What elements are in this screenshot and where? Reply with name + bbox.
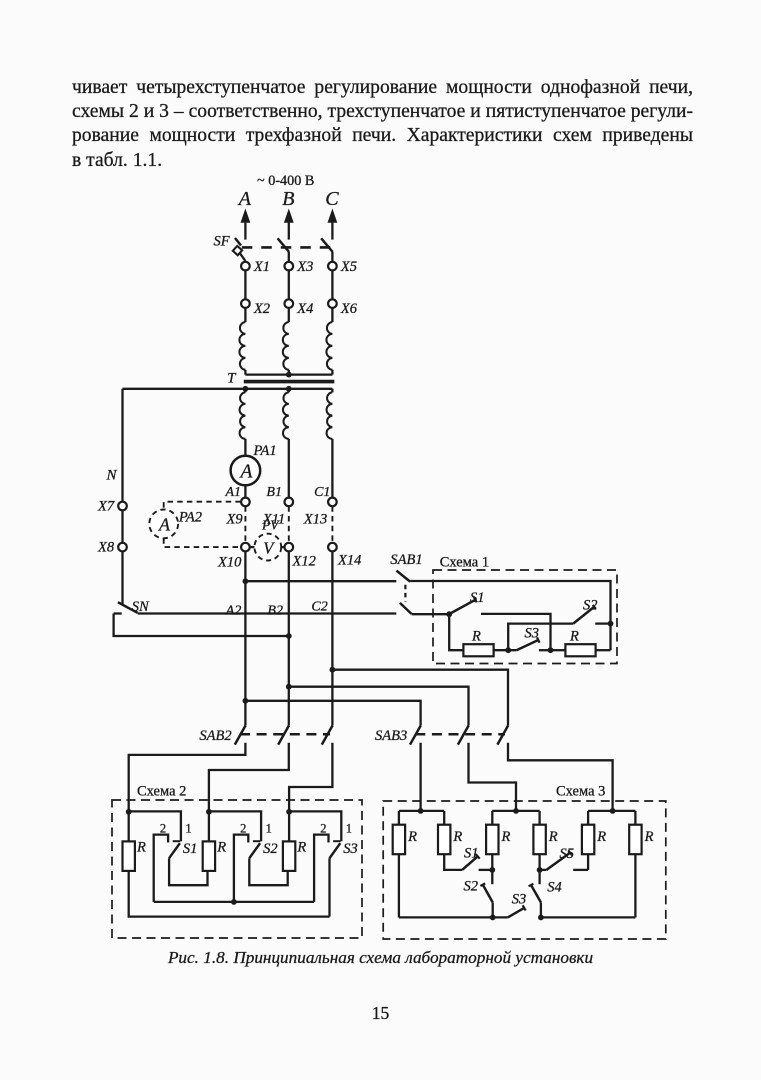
svg-text:1: 1: [266, 822, 272, 836]
wire: scheme1 top feeder: [410, 581, 610, 650]
terminal X14: [328, 543, 337, 552]
wire: [121, 551, 123, 604]
wire: R1 bottom wrap to S3 common: [129, 871, 330, 917]
svg-text:X1: X1: [253, 259, 270, 275]
node junction: [505, 647, 511, 653]
svg-text:PA2: PA2: [178, 510, 202, 526]
wire: feed to contact 1: [129, 811, 181, 841]
wire: SF pole link (dashed): [242, 246, 331, 249]
node junction: [548, 647, 554, 653]
node junction (scheme2 cell 2): [206, 809, 212, 815]
wire: [288, 439, 290, 498]
terminal X8: [118, 543, 127, 552]
svg-text:A: A: [237, 188, 252, 210]
node junction on C2: [330, 667, 336, 673]
wire: SAB3 pole3 to scheme3: [508, 743, 613, 811]
box: Схема 3 (dashed): [383, 801, 666, 939]
wire: [551, 649, 566, 651]
svg-text:Схема 2: Схема 2: [137, 784, 186, 800]
wire: R3 bottom: [491, 854, 493, 884]
node junction: [446, 611, 452, 617]
wire: phase B supply arrow: [284, 209, 294, 223]
wire: blade common to next R: [249, 858, 287, 885]
svg-text:А2: А2: [225, 604, 242, 619]
node junction (scheme2 cell 1): [126, 809, 132, 815]
svg-text:X8: X8: [97, 540, 115, 556]
svg-text:R: R: [644, 829, 654, 845]
wire: blade common of S3 down: [328, 858, 330, 916]
terminal X6: [328, 299, 337, 308]
svg-text:2: 2: [160, 822, 166, 836]
svg-text:~ 0-400 В: ~ 0-400 В: [257, 173, 314, 189]
svg-text:S1: S1: [470, 590, 485, 606]
wire: [494, 649, 517, 651]
svg-text:R: R: [569, 629, 579, 645]
svg-text:В1: В1: [266, 485, 282, 500]
terminal X2: [241, 299, 250, 308]
svg-text:X13: X13: [303, 512, 327, 528]
svg-text:2: 2: [320, 822, 326, 836]
svg-text:R: R: [452, 829, 462, 845]
node junction (scheme2 cell 3): [286, 809, 292, 815]
resistor R (scheme2 cell 1): [123, 841, 135, 871]
svg-text:SF: SF: [214, 234, 230, 250]
svg-text:S3: S3: [512, 892, 527, 908]
transformer T primary windings: [244, 308, 246, 322]
terminal X12: [285, 543, 294, 552]
ammeter PA2 (plug-in, dashed): [164, 502, 241, 510]
svg-text:R: R: [596, 829, 606, 845]
svg-text:2: 2: [240, 822, 246, 836]
wire: contact-2 star bus: [154, 901, 314, 903]
svg-text:R: R: [136, 840, 146, 856]
wire: SN stub to B2: [114, 612, 122, 614]
terminal X7: [118, 502, 127, 511]
wire: scheme3 T-split 2: [492, 810, 539, 812]
node junction on A2: [243, 698, 249, 704]
wire: phase C2 drop: [331, 551, 333, 725]
wire: blade common to next R: [169, 858, 207, 885]
node junction: [490, 915, 496, 921]
wire: SAB3 pole1 to scheme3: [419, 743, 421, 811]
resistor R (scheme3 #3): [486, 825, 498, 855]
node junction on B2: [286, 633, 292, 639]
svg-text:X6: X6: [340, 301, 358, 317]
wire: [288, 812, 290, 842]
svg-text:Схема 1: Схема 1: [440, 555, 489, 571]
wire: contact 2 arm: [234, 835, 248, 902]
svg-text:1: 1: [346, 822, 352, 836]
svg-text:X3: X3: [296, 259, 313, 275]
wire: [596, 649, 611, 651]
wire: [244, 439, 246, 456]
box: Схема 2 (dashed): [112, 800, 362, 938]
node junction: [489, 867, 495, 873]
svg-text:Схема 3: Схема 3: [556, 784, 605, 800]
resistor R (scheme3 #2): [438, 825, 450, 855]
svg-text:S2: S2: [464, 879, 479, 895]
svg-text:S1: S1: [183, 841, 198, 857]
terminal X11: [285, 498, 294, 507]
wire: feed to contact 1: [209, 811, 261, 841]
wire: scheme3 T-split 3: [588, 810, 635, 812]
wire: R2 bottom: [444, 854, 462, 870]
transformer T secondary windings: [244, 389, 246, 393]
wire: X13-X14 (dashed): [331, 506, 333, 542]
wire: [449, 614, 463, 650]
wire: [244, 270, 246, 299]
svg-text:X2: X2: [253, 301, 270, 317]
node junction: [243, 386, 249, 392]
node: primary bus junction: [286, 372, 292, 378]
node junction: [286, 386, 292, 392]
wire: [208, 812, 210, 842]
svg-text:B: B: [282, 188, 294, 210]
svg-text:SAB1: SAB1: [390, 552, 422, 568]
wire: A2 to SAB1: [245, 580, 396, 582]
svg-text:X10: X10: [217, 555, 242, 571]
node junction: [243, 578, 249, 584]
wire: tap B to SAB3: [289, 687, 469, 726]
svg-text:С2: С2: [311, 600, 327, 615]
wire: X9-X10 (dashed): [244, 506, 246, 542]
node junction: [608, 621, 614, 627]
svg-text:S4: S4: [547, 880, 562, 896]
wire: R5 bottom: [587, 854, 589, 870]
wire: tap C to SAB3: [332, 670, 508, 726]
wire: [288, 270, 290, 299]
wire: contact 2 arm: [314, 835, 328, 902]
terminal X1: [241, 262, 250, 271]
svg-text:X14: X14: [337, 553, 361, 569]
wire: primary star bus: [245, 373, 332, 375]
wire: SAB2 pole2 to scheme2: [209, 743, 289, 812]
resistor R (scheme2 cell 2): [203, 841, 215, 871]
terminal X4: [285, 299, 294, 308]
svg-text:X5: X5: [340, 259, 357, 275]
wire: [121, 510, 123, 543]
wire: neutral bus to SAB1: [138, 612, 397, 614]
svg-text:SAB2: SAB2: [199, 728, 231, 744]
resistor R (scheme3 #5): [582, 825, 594, 855]
wire: phase C supply arrow: [328, 209, 338, 223]
wire: contact 2 arm: [154, 835, 168, 902]
terminal X13: [328, 498, 337, 507]
svg-text:X9: X9: [226, 512, 244, 528]
wire: SAB2 pole1 to scheme2: [129, 743, 246, 812]
wire: [331, 270, 333, 299]
wire: phase B2 drop: [288, 551, 290, 725]
wire: secondary bus with neutral N tap: [123, 388, 333, 390]
wire: tap A to SAB3: [245, 701, 420, 726]
svg-text:X4: X4: [296, 301, 313, 317]
wire: R6 bottom to bus: [634, 854, 636, 917]
svg-text:A: A: [158, 515, 171, 535]
box: Схема 1 (dashed): [433, 570, 617, 664]
svg-text:С1: С1: [314, 485, 330, 500]
terminal X10: [241, 543, 250, 552]
svg-text:X7: X7: [97, 499, 115, 515]
svg-text:R: R: [407, 829, 417, 845]
svg-text:X12: X12: [292, 554, 316, 570]
wire: [128, 812, 130, 842]
svg-text:R: R: [501, 829, 511, 845]
wire: R1 bottom to bus: [398, 854, 400, 917]
wire: feed to contact 1: [289, 811, 341, 841]
resistor R (scheme3 #1): [393, 825, 405, 855]
svg-text:S3: S3: [343, 841, 358, 857]
node junction: [537, 867, 543, 873]
svg-text:T: T: [227, 370, 237, 386]
wire: scheme3 T-split 1: [399, 810, 444, 812]
svg-text:1: 1: [185, 822, 191, 836]
svg-text:SAB3: SAB3: [375, 728, 407, 744]
terminal X9: [241, 498, 250, 507]
resistor R (scheme3 #6): [629, 825, 641, 855]
svg-text:А1: А1: [225, 485, 242, 500]
svg-text:R: R: [548, 829, 558, 845]
wire: SAB2 pole3 to scheme2: [289, 743, 332, 812]
wire: R4 bottom: [538, 854, 540, 884]
wire: phase A supply arrow: [241, 209, 251, 223]
svg-text:PA1: PA1: [253, 443, 277, 459]
svg-text:R: R: [471, 629, 481, 645]
wire: S2 branch riser: [508, 624, 573, 651]
wire: [244, 485, 246, 497]
wire: bottom bus left: [399, 916, 508, 918]
node junction: [538, 915, 544, 921]
resistor R (scheme2 cell 3): [283, 841, 295, 871]
wire: scheme1 lower feeder: [412, 613, 450, 615]
terminal X3: [285, 262, 294, 271]
svg-text:R: R: [216, 840, 226, 856]
node junction on B2: [286, 684, 292, 690]
node junction: [231, 899, 237, 905]
svg-text:PV: PV: [261, 518, 280, 533]
resistor R (scheme3 #4): [533, 825, 545, 855]
wire: phase A2 drop: [244, 551, 246, 725]
svg-text:A: A: [238, 462, 252, 483]
wire: [331, 439, 333, 498]
wire: SAB3 pole2 to scheme3: [469, 743, 517, 811]
terminal X5: [328, 262, 337, 271]
svg-text:N: N: [106, 468, 118, 484]
svg-text:C: C: [325, 188, 339, 210]
wire: X11-X12 (dashed): [288, 506, 290, 542]
svg-text:В2: В2: [267, 604, 283, 619]
svg-text:S2: S2: [263, 841, 278, 857]
wire: bottom bus right: [541, 916, 636, 918]
svg-text:R: R: [296, 840, 306, 856]
